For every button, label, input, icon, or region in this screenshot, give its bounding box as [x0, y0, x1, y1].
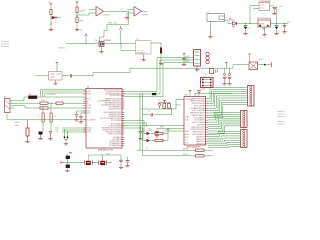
svg-text:(RXD/PCINT16)PD0: (RXD/PCINT16)PD0: [190, 129, 205, 131]
wire: [210, 22, 212, 36]
resistor RN4B: [196, 155, 205, 157]
svg-text:(PCINT6)PB6: (PCINT6)PB6: [111, 120, 122, 122]
svg-text:arduino.cc: arduino.cc: [277, 116, 285, 118]
wire: [151, 42, 161, 44]
node: [249, 23, 250, 24]
capacitor CB: [156, 129, 158, 132]
net flag XTAL1: [61, 161, 64, 164]
svg-text:Reference: Reference: [1, 46, 9, 48]
svg-text:47u: 47u: [248, 28, 251, 30]
svg-text:TXLED: TXLED: [148, 129, 152, 131]
svg-text:LP2985-33DBVR: LP2985-33DBVR: [259, 1, 272, 3]
U3 left pin stubs: [83, 91, 86, 132]
svg-text:MOSI2: MOSI2: [185, 61, 190, 63]
regulator U2 LP2985-33DBVR: [259, 3, 270, 11]
wire: [163, 140, 168, 142]
U3 left pin labels: [87, 90, 96, 134]
supply: [69, 153, 72, 154]
wires ZU4 to AD: [208, 132, 241, 148]
svg-text:ATMEGA16U2-MU: ATMEGA16U2-MU: [98, 149, 114, 152]
op-amp U5B LMV358: [134, 7, 142, 17]
wire: [146, 123, 148, 127]
wire USB GND: [10, 107, 14, 109]
connector ICSP: [201, 78, 214, 88]
wire: [139, 93, 141, 109]
resistor RN1B: [76, 7, 78, 13]
svg-text:U5: U5: [137, 39, 139, 41]
svg-text:D+: D+: [87, 103, 89, 105]
wire: [139, 109, 141, 150]
wire: [76, 13, 78, 18]
wire: [126, 13, 128, 17]
wire UGND: [62, 127, 86, 129]
wire: [122, 120, 144, 122]
svg-text:arduino.cc: arduino.cc: [277, 124, 285, 126]
wire: [56, 17, 61, 19]
ground: [222, 83, 226, 86]
wire: [48, 102, 56, 104]
svg-text:PC1(RESET): PC1(RESET): [87, 119, 96, 121]
svg-text:L1: L1: [31, 131, 33, 133]
svg-text:(PCINT10)PC4: (PCINT10)PC4: [110, 95, 122, 97]
ground: [49, 28, 53, 31]
wire: [150, 133, 155, 135]
fuse F1 MF-MSMF050-2: [29, 96, 38, 99]
wire: [122, 127, 143, 129]
ground: [25, 140, 29, 143]
ground: [65, 169, 69, 172]
wire USB VBUS: [10, 97, 28, 101]
wire: [250, 5, 259, 7]
svg-text:+: +: [135, 9, 136, 11]
node: [120, 43, 121, 44]
wire UCAP: [62, 129, 86, 131]
ZU4 right pin stubs: [206, 99, 209, 144]
wire: [150, 140, 155, 142]
wire: [128, 11, 130, 24]
ground: [75, 28, 79, 31]
svg-text:(SS/OC1B)PB2: (SS/OC1B)PB2: [194, 105, 205, 107]
wire: [144, 121, 147, 134]
wire shield: [7, 113, 86, 120]
ground X1: [208, 36, 212, 39]
LED component: [26, 128, 29, 136]
diode D1 M7: [233, 22, 237, 25]
JP2 pads: [206, 52, 209, 63]
wire: [196, 66, 198, 69]
connector IOH: [248, 86, 255, 107]
wire: [249, 54, 251, 62]
wire MISO2: [122, 58, 194, 92]
svg-text:ZU4: ZU4: [185, 95, 188, 97]
svg-text:(SS/PCINT0)PB0: (SS/PCINT0)PB0: [108, 134, 121, 136]
ZU4 right pin labels: [190, 98, 205, 145]
wire: [153, 114, 171, 116]
node: [245, 23, 246, 24]
ground: [227, 83, 231, 86]
wire: [120, 30, 122, 44]
wire +5V out: [271, 23, 289, 25]
svg-text:Z2: Z2: [54, 116, 56, 118]
wire: [237, 23, 258, 25]
wire UVCC: [62, 131, 86, 133]
connector JP2: [194, 50, 201, 67]
svg-text:U3: U3: [87, 87, 89, 89]
svg-text:GND: GND: [80, 30, 83, 32]
wire: [42, 122, 44, 128]
node dot: [264, 64, 266, 66]
wire: [56, 63, 58, 72]
U3 right pin labels: [98, 90, 122, 148]
wire: [38, 96, 87, 98]
node: [67, 162, 68, 163]
svg-text:RESET: RESET: [259, 59, 264, 61]
wire M8TXD: [143, 155, 196, 157]
wire RESET net: [140, 100, 184, 110]
wire CMP to op-amp: [77, 13, 96, 15]
wire: [276, 6, 278, 24]
supply +5V above RN1B: [76, 2, 79, 3]
capacitor C4 22p: [66, 156, 70, 159]
wire RD-: [63, 102, 86, 104]
svg-text:X2: X2: [4, 97, 6, 99]
wire: [81, 112, 86, 114]
regulator U1 NCP1117ST50T3G: [258, 20, 271, 27]
resistor RN1D: [163, 102, 165, 105]
op-amp U5A LMV358: [96, 7, 104, 17]
wire: [64, 130, 66, 137]
ground L2: [55, 80, 57, 82]
svg-text:+3V3: +3V3: [279, 6, 283, 8]
resistor RN3C: [56, 102, 63, 104]
ZU4 left pin labels: [185, 99, 194, 145]
wires ZU4 to IOH: [208, 87, 248, 117]
node junction: [50, 23, 51, 24]
wire gate staircase: [100, 24, 108, 42]
wires ZU4 to IOL: [208, 112, 241, 133]
svg-text:M7: M7: [233, 27, 236, 29]
wire: [204, 155, 213, 157]
connector IOL: [241, 111, 248, 128]
wire staircase to S1: [72, 65, 249, 76]
svg-text:PC6(RESET): PC6(RESET): [185, 99, 194, 101]
wire USBVCC rail: [66, 43, 99, 45]
svg-text:T1: T1: [95, 40, 97, 42]
ground: [74, 119, 78, 122]
wire: [101, 47, 103, 51]
capacitor PC1 47u: [245, 24, 247, 26]
ground: [64, 143, 68, 146]
supply +5V rail: [85, 34, 88, 37]
resistor R10: [50, 10, 52, 15]
svg-text:Z1: Z1: [38, 116, 40, 118]
connector AD: [241, 130, 248, 148]
ground: [79, 121, 83, 124]
svg-text:MF-MSMF050-2: MF-MSMF050-2: [47, 94, 57, 96]
svg-text:MISO2: MISO2: [185, 56, 190, 58]
ground: [155, 135, 159, 138]
switch RESET S1: [249, 62, 258, 70]
ground: [159, 62, 163, 65]
capacitor C5u: [76, 111, 78, 114]
wire VCC stub: [189, 91, 191, 97]
wire USB D+: [10, 106, 40, 108]
svg-text:(TXD1/INT3)PD3: (TXD1/INT3)PD3: [108, 109, 121, 111]
supply +5V: [167, 129, 170, 130]
wire: [163, 129, 168, 133]
capacitor C11: [210, 69, 214, 74]
wire nested UVCC: [41, 89, 87, 97]
wire: [121, 44, 136, 51]
svg-text:C5: C5: [148, 111, 150, 113]
wire U5B output: [142, 10, 148, 12]
supply +5V: [226, 63, 228, 68]
svg-text:(INT0)PD2: (INT0)PD2: [197, 124, 205, 126]
svg-text:(T0/XCK)PD4: (T0/XCK)PD4: [195, 120, 205, 122]
svg-text:ATMEGA328P-PU: ATMEGA328P-PU: [187, 146, 202, 149]
ground T1: [99, 51, 103, 54]
svg-text:(ICP1/CLKO)PB0: (ICP1/CLKO)PB0: [192, 110, 205, 112]
wire: [143, 128, 147, 141]
ground C1: [48, 138, 52, 141]
wire MOSI2: [122, 63, 194, 97]
resistor RN3A 22R: [40, 102, 48, 104]
net flag: [271, 62, 273, 67]
capacitor C7u: [80, 113, 82, 116]
svg-text:UVCC: UVCC: [55, 132, 59, 134]
wire: [270, 5, 275, 7]
svg-text:LMV358: LMV358: [104, 15, 110, 17]
IOL pads: [243, 111, 245, 127]
supply tick: [248, 53, 251, 55]
wire: [160, 54, 162, 63]
wire: [50, 15, 52, 29]
wire: [141, 125, 185, 127]
node CMP: [76, 14, 77, 15]
ground: [182, 63, 186, 66]
IC U3 ATMEGA16U2-MU: [86, 89, 122, 149]
capacitor C10: [70, 74, 71, 77]
U3 right pin stubs: [122, 90, 124, 146]
wire: [66, 154, 68, 169]
wire +3V3 to U5A input: [89, 9, 96, 11]
wire: [167, 134, 169, 141]
ground U1: [262, 34, 266, 37]
capacitor junction dots: [64, 136, 66, 138]
diode CG0603MLC-05E: [39, 132, 43, 135]
resistor RN3B 22R: [40, 107, 48, 109]
wire AREF: [157, 128, 184, 130]
IC ZU4 ATMEGA328P-PU: [184, 97, 206, 146]
wire: [42, 108, 44, 113]
resistor RN4A: [196, 149, 205, 151]
supply +5V above R10: [50, 4, 53, 5]
svg-text:D1: D1: [232, 20, 234, 22]
dark pin marks U1 reg: [259, 25, 261, 27]
wire SCK2: [122, 60, 194, 94]
op-amp power block U5: [136, 41, 152, 55]
capacitor C4: [140, 126, 142, 132]
LED RX: [147, 139, 151, 142]
wire M8RXD: [137, 149, 196, 151]
ground C8: [272, 12, 276, 15]
capacitor PC2 47u: [276, 24, 278, 26]
wire: [76, 2, 78, 7]
wire: [67, 132, 69, 137]
wire: [93, 161, 98, 163]
capacitor: [228, 73, 230, 75]
capacitor C6b: [183, 60, 185, 63]
wire U5B inputs: [127, 9, 134, 11]
ground C4: [138, 137, 142, 140]
AD pads: [243, 131, 245, 148]
svg-text:NCP1117ST50T3G: NCP1117ST50T3G: [257, 18, 271, 20]
capacitor C8: [273, 7, 277, 8]
wire: [171, 109, 173, 115]
resistor RN2C: [155, 139, 163, 141]
svg-text:LMV358: LMV358: [142, 15, 148, 17]
svg-text:F1: F1: [29, 94, 31, 96]
capacitor C7 22p: [66, 165, 70, 168]
svg-text:UGND: UGND: [55, 128, 59, 130]
varistor Z1: [42, 113, 44, 122]
ground: [38, 137, 42, 140]
wire U5A output: [104, 10, 129, 12]
svg-text:LMV358D: LMV358D: [137, 53, 145, 55]
svg-text:(RTS/AIN5)PD6: (RTS/AIN5)PD6: [109, 144, 121, 147]
resistor RN2D: [168, 102, 170, 105]
wire: [204, 149, 213, 151]
wire: [64, 161, 84, 163]
wire: [225, 21, 233, 24]
wire: [142, 93, 144, 115]
node: [276, 23, 277, 24]
ground: [141, 59, 145, 62]
crystal Q1 16MHz: [98, 160, 100, 164]
ground C3: [282, 31, 286, 34]
wire RD+: [48, 107, 86, 109]
wire: [62, 75, 70, 77]
supply VIN: [229, 18, 231, 20]
ground: [125, 165, 129, 168]
capacitor: [223, 73, 225, 75]
resistor RN1A: [76, 17, 78, 23]
transistor T1 FDN340P: [99, 42, 104, 47]
supply +5V: [183, 53, 186, 54]
supply +5V: [158, 102, 171, 104]
svg-text:10K: 10K: [158, 100, 161, 102]
capacitor C1: [49, 132, 53, 133]
connector X1 power jack: [207, 14, 225, 22]
wire: [65, 138, 68, 139]
capacitor C5 DTR: [143, 114, 151, 116]
wire: [143, 54, 145, 59]
ground PC1: [243, 32, 247, 35]
ground: [119, 166, 123, 169]
ground PC2: [274, 32, 278, 35]
LED TX: [147, 132, 151, 135]
component L2 block: [49, 72, 63, 81]
wire AVCC stub: [194, 93, 196, 97]
resistor RN2B: [155, 132, 163, 134]
capacitor C2a: [120, 155, 122, 160]
IOH pads: [250, 86, 252, 105]
svg-text:GATE_CMD: GATE_CMD: [108, 21, 119, 24]
capacitor C9: [160, 48, 162, 54]
ground JP2: [195, 69, 199, 72]
wire: [183, 54, 185, 58]
connector X2 USB-B: [5, 99, 11, 113]
capacitor C2b: [127, 157, 129, 161]
wire GATE_CMD: [107, 23, 129, 25]
svg-text:USBVCC: USBVCC: [14, 122, 21, 124]
varistor Z2: [50, 113, 52, 122]
wire: [122, 122, 147, 124]
svg-text:(TXD/PCINT17)PD1: (TXD/PCINT17)PD1: [190, 127, 205, 129]
svg-text:(T1/OC0B)PD5: (T1/OC0B)PD5: [194, 117, 205, 119]
svg-text:(INT1/OC2B)PD3: (INT1/OC2B)PD3: [192, 122, 205, 124]
svg-text:M8TXD: M8TXD: [183, 154, 189, 156]
wire: [142, 115, 144, 156]
LED ON (green power LED): [52, 16, 56, 19]
wire: [65, 140, 67, 143]
wire: [264, 27, 266, 34]
crystal Y2 16MHz: [83, 160, 85, 164]
svg-text:3V3: 3V3: [83, 9, 86, 11]
wire: [195, 93, 232, 95]
wire AGND: [163, 130, 184, 132]
capacitor: [197, 91, 201, 92]
wire +5V side: [104, 43, 136, 45]
wire: [50, 103, 52, 113]
svg-text:16MHz: 16MHz: [106, 154, 111, 156]
wire: [107, 161, 112, 163]
svg-text:FDN340P: FDN340P: [104, 40, 112, 42]
svg-text:SCK2: SCK2: [185, 59, 189, 61]
svg-text:+: +: [97, 9, 98, 11]
wire nested: [43, 91, 87, 97]
capacitor C3: [284, 24, 286, 26]
wire: [122, 125, 140, 127]
svg-text:RESET: RESET: [176, 105, 181, 107]
ground U5B: [125, 17, 129, 20]
wire: [245, 29, 247, 32]
wire USB D-: [10, 102, 40, 104]
wire XTAL run: [87, 155, 89, 161]
wire: [50, 4, 52, 10]
svg-text:M8RXD: M8RXD: [183, 149, 189, 151]
wire: [77, 110, 87, 112]
wire long reset run: [35, 75, 49, 77]
wire: [258, 64, 272, 66]
svg-text:USBVCC: USBVCC: [59, 47, 67, 49]
wire: [249, 6, 251, 24]
svg-text:X1: X1: [207, 12, 209, 14]
diode D2: [159, 103, 161, 104]
diode D3 CD1206: [152, 93, 156, 95]
wire: [76, 23, 78, 29]
wire nested: [45, 93, 87, 97]
supply +5V arrow: [119, 26, 122, 30]
